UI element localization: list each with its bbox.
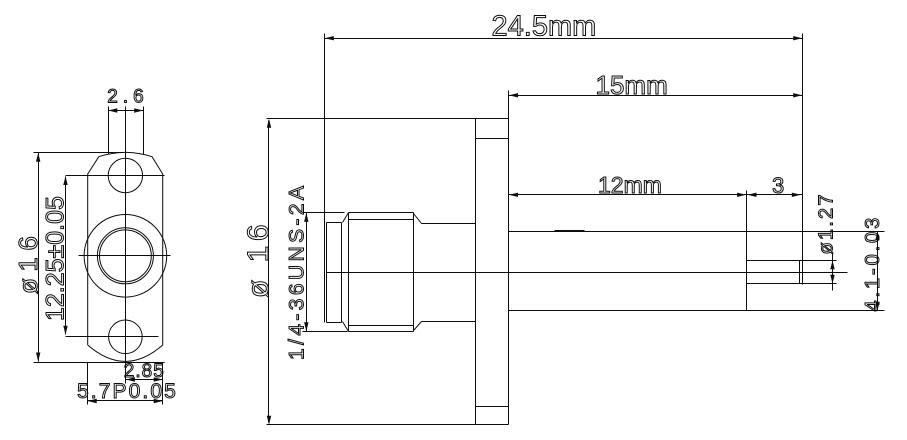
svg-text:ø1.27: ø1.27 (816, 192, 838, 254)
svg-text:1/4-36UNS-2A: 1/4-36UNS-2A (286, 183, 309, 360)
svg-text:ø16: ø16 (13, 230, 43, 294)
svg-text:3: 3 (772, 173, 784, 198)
svg-text:24.5mm: 24.5mm (492, 11, 597, 43)
svg-text:ø 16: ø 16 (242, 220, 275, 298)
svg-text:2.6: 2.6 (107, 87, 148, 108)
svg-text:12mm: 12mm (598, 172, 662, 198)
svg-text:12.25±0.05: 12.25±0.05 (42, 196, 70, 321)
svg-text:4.1-0.03: 4.1-0.03 (862, 215, 884, 312)
svg-text:5.7P0.05: 5.7P0.05 (77, 380, 178, 403)
svg-text:2.85: 2.85 (124, 361, 165, 382)
svg-text:15mm: 15mm (596, 70, 668, 100)
